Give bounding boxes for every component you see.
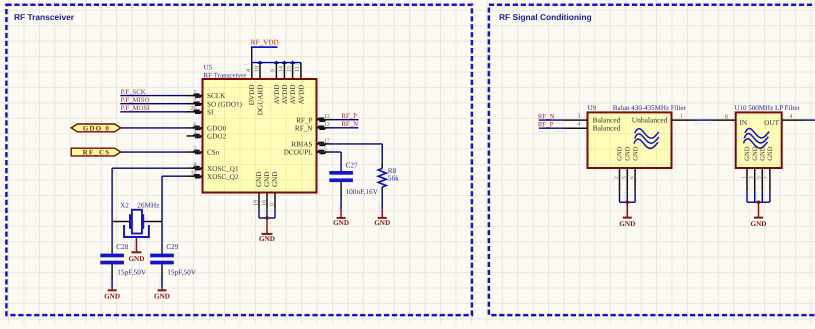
svg-text:RF Signal Conditioning: RF Signal Conditioning [499, 12, 592, 22]
svg-text:1: 1 [741, 176, 747, 179]
svg-text:DGUARD: DGUARD [256, 85, 264, 116]
svg-text:RF Transceiver: RF Transceiver [14, 12, 75, 22]
svg-text:RF_CS: RF_CS [83, 149, 111, 157]
svg-text:C27: C27 [346, 160, 359, 169]
svg-text:9: 9 [271, 69, 277, 72]
svg-text:GND: GND [259, 235, 275, 243]
svg-text:C28: C28 [116, 242, 129, 251]
svg-text:5: 5 [324, 146, 327, 152]
svg-text:RF_P: RF_P [296, 116, 312, 124]
svg-text:20: 20 [191, 106, 197, 112]
svg-text:16: 16 [261, 200, 267, 206]
svg-text:GDO0: GDO0 [207, 125, 227, 133]
svg-text:X2: X2 [120, 201, 129, 210]
svg-text:56k: 56k [388, 174, 399, 183]
svg-text:GND: GND [263, 171, 271, 187]
svg-text:GND: GND [104, 292, 120, 300]
svg-text:5: 5 [622, 176, 628, 179]
svg-text:DCOUPL: DCOUPL [284, 149, 313, 157]
svg-text:GND: GND [255, 171, 263, 187]
svg-text:GDO 0: GDO 0 [83, 125, 110, 133]
svg-text:1: 1 [194, 90, 197, 96]
svg-text:18: 18 [254, 66, 260, 72]
svg-text:3: 3 [749, 176, 755, 179]
svg-text:AVDD: AVDD [289, 85, 297, 105]
svg-text:1: 1 [680, 114, 683, 120]
svg-text:GND: GND [617, 146, 624, 161]
svg-text:P.F_MOSI: P.F_MOSI [121, 105, 151, 112]
svg-text:RF_P: RF_P [341, 113, 357, 120]
svg-text:10: 10 [191, 171, 197, 177]
svg-text:RF_N: RF_N [538, 113, 555, 120]
svg-text:RF_VDD: RF_VDD [251, 38, 279, 46]
svg-text:C29: C29 [166, 242, 179, 251]
svg-text:P.F_MISO: P.F_MISO [121, 97, 150, 104]
svg-text:12: 12 [324, 114, 330, 120]
svg-text:Balun 430-435MHz Filter: Balun 430-435MHz Filter [613, 104, 687, 112]
svg-text:U9: U9 [588, 104, 597, 112]
svg-text:Balanced: Balanced [593, 124, 621, 133]
svg-text:GND: GND [333, 219, 349, 227]
svg-text:6: 6 [629, 176, 635, 179]
svg-text:GND: GND [128, 255, 144, 263]
svg-text:GND: GND [374, 219, 390, 227]
svg-text:15pF,50V: 15pF,50V [167, 267, 197, 276]
svg-text:SI: SI [207, 108, 214, 116]
svg-text:U10 500MHz LP Filter: U10 500MHz LP Filter [735, 104, 801, 112]
svg-text:4: 4 [246, 69, 252, 72]
svg-text:2: 2 [194, 98, 197, 104]
svg-text:P.F_SCK: P.F_SCK [121, 89, 146, 96]
svg-text:IN: IN [740, 119, 748, 127]
svg-text:4: 4 [577, 122, 580, 128]
svg-text:RF_N: RF_N [341, 121, 358, 128]
svg-text:RF_P: RF_P [538, 122, 554, 129]
svg-text:3: 3 [194, 130, 197, 136]
svg-text:GND: GND [760, 146, 767, 161]
svg-text:SCLK: SCLK [207, 92, 226, 100]
svg-text:GND: GND [744, 146, 751, 161]
svg-text:AVDD: AVDD [273, 85, 281, 105]
svg-text:6: 6 [194, 122, 197, 128]
svg-text:GND: GND [752, 146, 759, 161]
svg-text:AVDD: AVDD [281, 85, 289, 105]
svg-text:GND: GND [271, 171, 279, 187]
svg-text:5: 5 [757, 176, 763, 179]
svg-text:GND: GND [619, 220, 635, 228]
svg-text:SO (GDO1): SO (GDO1) [207, 100, 243, 108]
svg-text:7: 7 [194, 146, 197, 152]
svg-text:0: 0 [269, 203, 275, 206]
svg-text:8: 8 [194, 163, 197, 169]
svg-text:8: 8 [725, 114, 728, 120]
svg-text:2: 2 [614, 176, 620, 179]
svg-text:XOSC_Q1: XOSC_Q1 [207, 165, 239, 173]
svg-text:GND: GND [632, 146, 639, 161]
svg-text:GND: GND [154, 292, 170, 300]
svg-text:XOSC_Q2: XOSC_Q2 [207, 173, 239, 181]
svg-text:15: 15 [287, 66, 293, 72]
svg-text:RF_N: RF_N [295, 124, 313, 132]
svg-text:11: 11 [295, 66, 301, 72]
svg-text:GND: GND [751, 220, 767, 228]
svg-text:14: 14 [279, 66, 285, 72]
svg-text:GND: GND [625, 146, 632, 161]
svg-text:13: 13 [324, 122, 330, 128]
svg-text:RF Transceiver: RF Transceiver [204, 72, 248, 80]
svg-text:Unbalanced: Unbalanced [632, 115, 668, 124]
svg-text:RBIAS: RBIAS [291, 141, 312, 149]
svg-text:GND: GND [767, 146, 774, 161]
svg-text:AVDD: AVDD [297, 85, 305, 105]
svg-text:OUT: OUT [764, 119, 779, 127]
svg-text:U5: U5 [204, 63, 213, 71]
svg-text:17: 17 [324, 138, 330, 144]
svg-text:3: 3 [577, 114, 580, 120]
svg-text:DVDD: DVDD [248, 85, 256, 106]
svg-text:4: 4 [789, 114, 792, 120]
svg-text:100nF,16V: 100nF,16V [346, 187, 379, 196]
svg-text:26MHz: 26MHz [137, 201, 160, 210]
svg-text:19: 19 [253, 200, 259, 206]
svg-text:15pF,50V: 15pF,50V [117, 267, 147, 276]
svg-text:7: 7 [764, 176, 770, 179]
svg-text:GDO2: GDO2 [207, 133, 227, 141]
svg-text:CSn: CSn [207, 149, 220, 157]
